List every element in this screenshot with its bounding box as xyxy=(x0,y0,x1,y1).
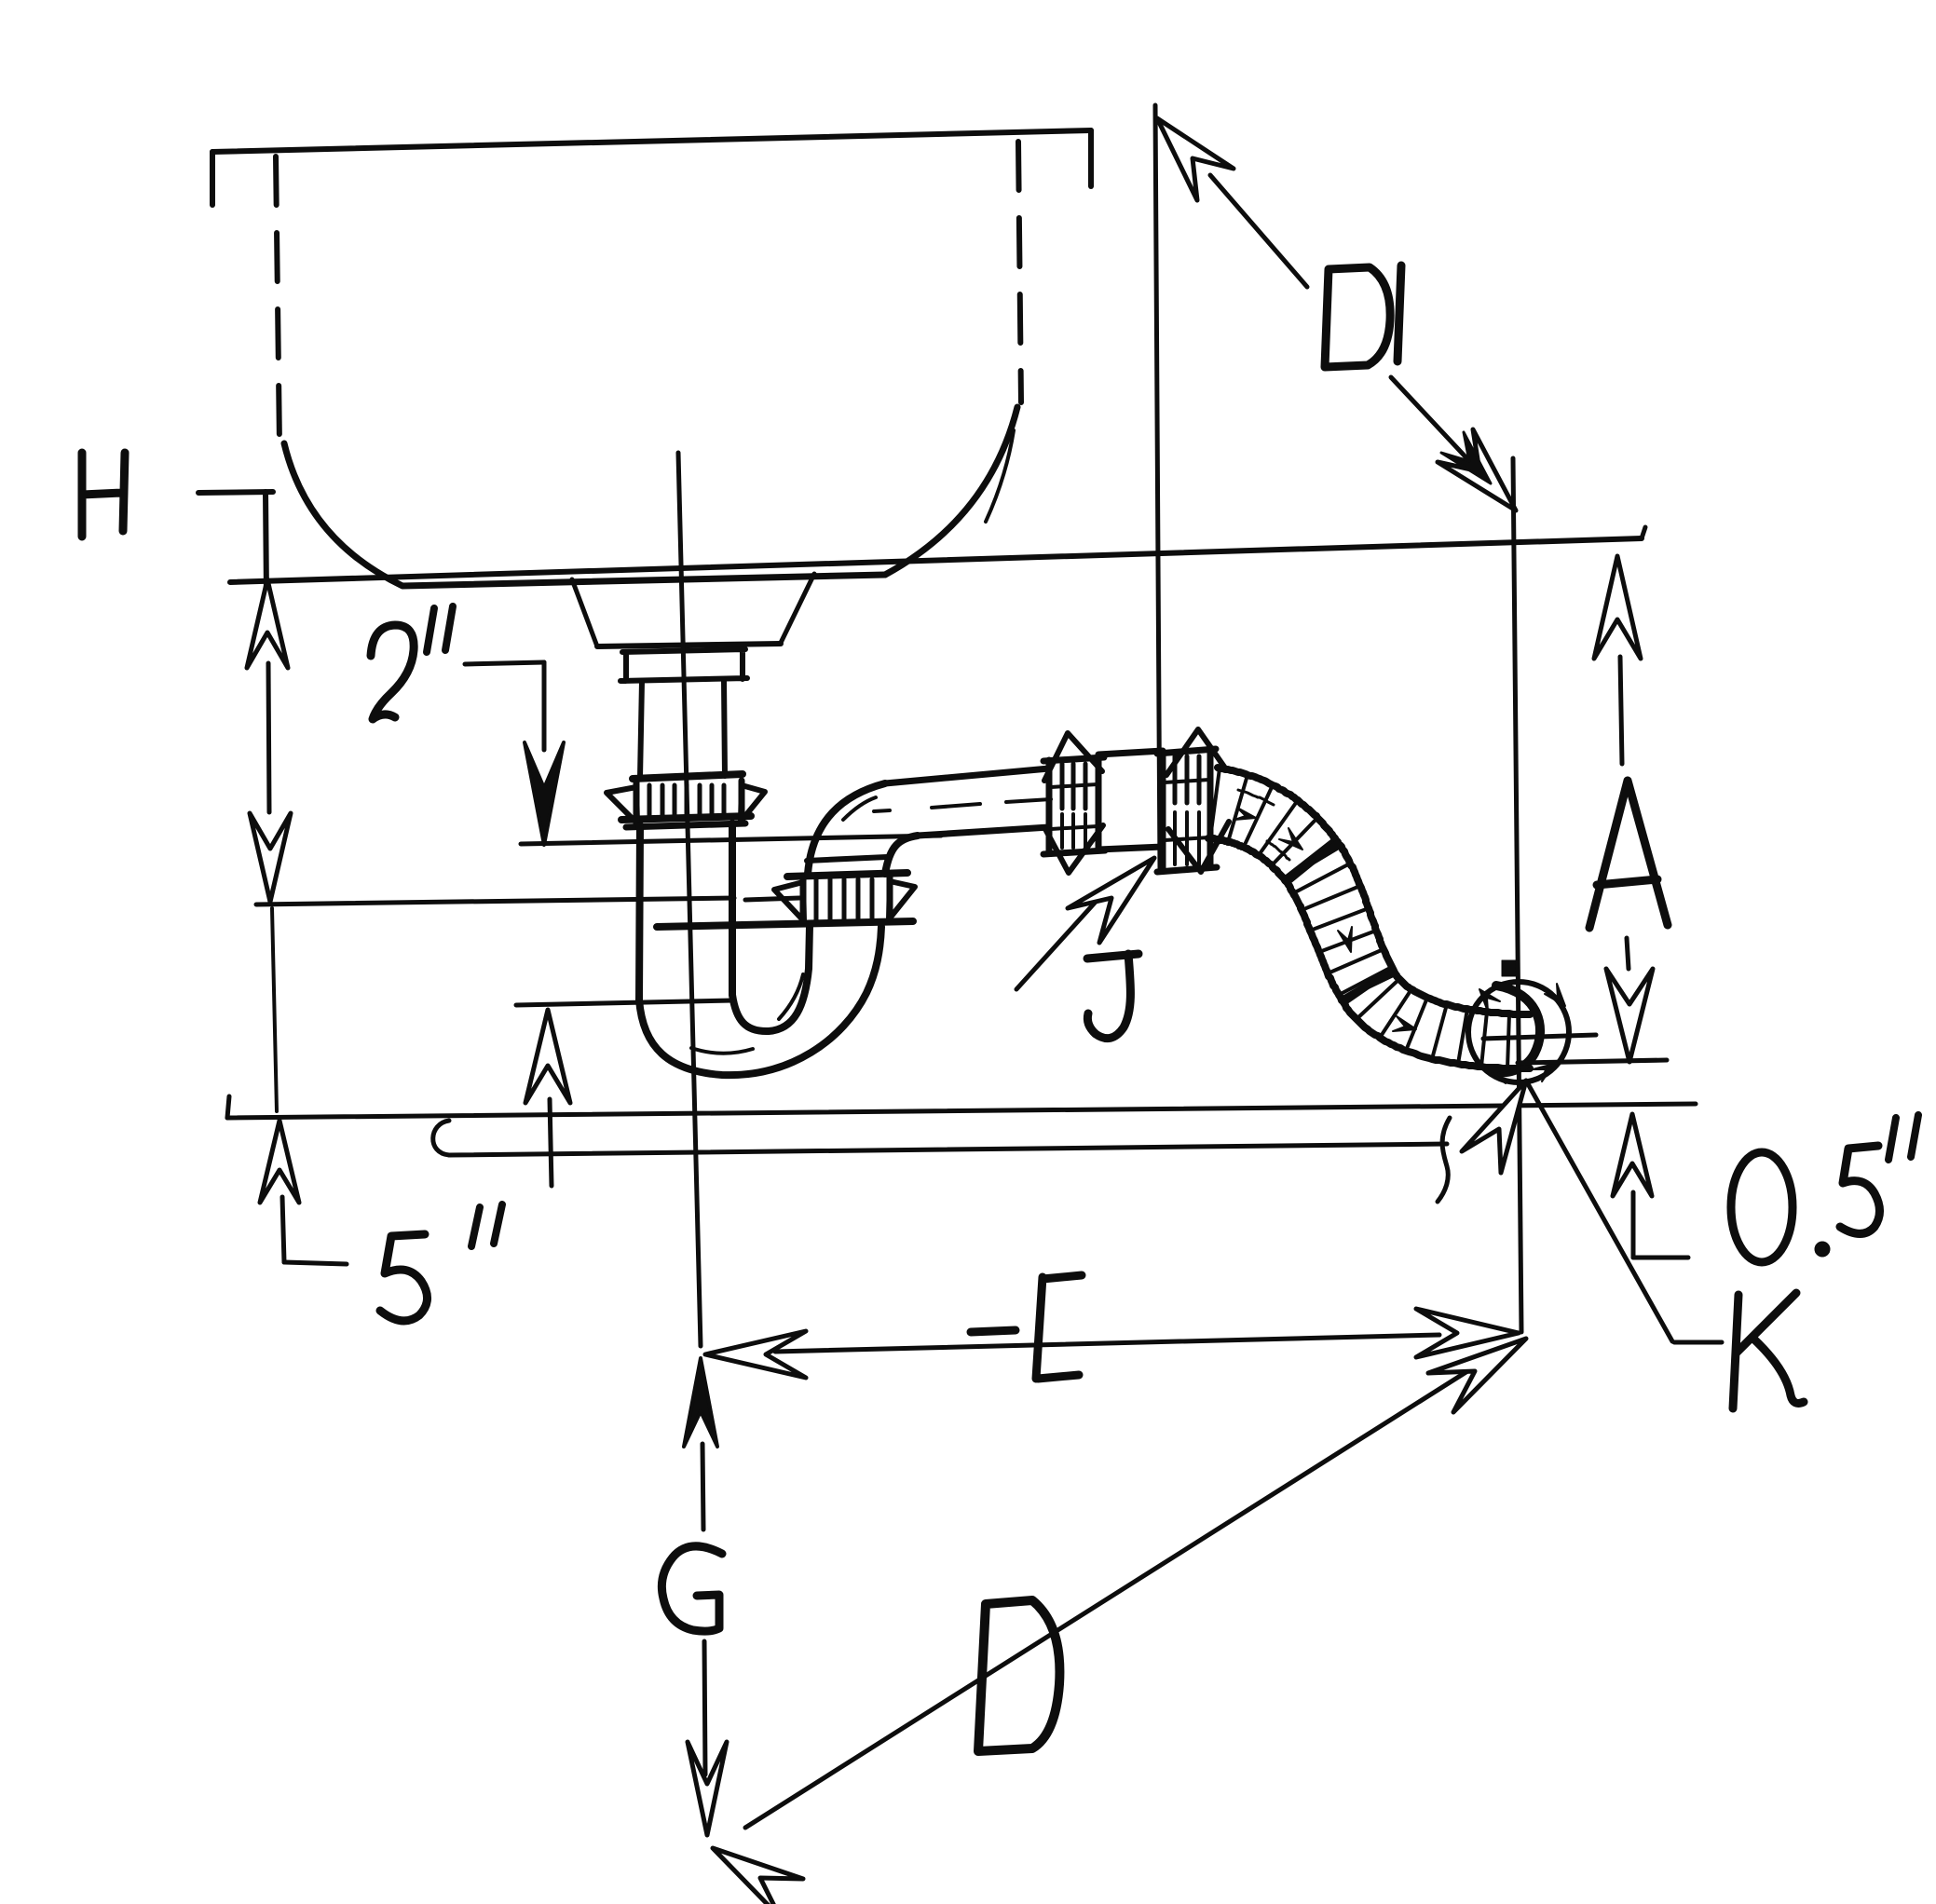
reference line at wall fitting xyxy=(1513,458,1521,1332)
label J xyxy=(1087,954,1138,1039)
label 5 inch xyxy=(380,1234,428,1321)
G arrow up xyxy=(684,1358,717,1447)
union J arrow xyxy=(1068,858,1154,943)
fitting tick line upper xyxy=(1483,1035,1596,1039)
trap arm level line xyxy=(256,898,734,904)
sink centerline xyxy=(678,453,701,1346)
union coupling J xyxy=(1043,757,1104,761)
strainer flange xyxy=(620,649,747,681)
2 inch arrow up xyxy=(525,1010,570,1103)
P-trap U-bend xyxy=(639,927,881,1075)
D1 leader upper xyxy=(1210,175,1307,287)
trap inlet level line xyxy=(521,836,941,844)
U-bend shading strokes xyxy=(691,1048,753,1054)
slip nut on trap outlet xyxy=(787,873,907,877)
slip nut on tailpiece xyxy=(633,774,743,779)
trap inlet tube xyxy=(639,825,640,1000)
label G xyxy=(661,1546,722,1631)
D1 leader lower xyxy=(1391,377,1514,509)
H dimension arrows xyxy=(247,579,288,668)
union J leader xyxy=(1016,881,1114,989)
2 inch arrow down xyxy=(525,742,564,845)
label D1 xyxy=(1325,267,1390,367)
sink rim (counter top edge) xyxy=(212,130,1091,152)
H bracket xyxy=(198,492,273,493)
label E xyxy=(971,1275,1082,1379)
sink right wall (hidden line) xyxy=(1018,142,1021,402)
drain stub pipe xyxy=(449,1144,1447,1155)
D1 arrow lower xyxy=(1438,429,1516,510)
floor line xyxy=(227,1104,1696,1118)
E line xyxy=(775,1335,1439,1352)
A arrow down xyxy=(1627,938,1629,969)
hose flow arrows xyxy=(1279,828,1302,850)
A arrow up xyxy=(1594,556,1641,659)
label A xyxy=(1589,781,1668,928)
sink bowl outline xyxy=(284,443,885,586)
D arrow upper xyxy=(1428,1339,1526,1412)
label D xyxy=(978,1600,1059,1751)
label H xyxy=(82,453,125,537)
G arrow down xyxy=(704,1641,705,1775)
5 inch arrow xyxy=(260,1121,299,1203)
2 inch leader xyxy=(465,662,544,664)
E arrow left xyxy=(705,1331,806,1378)
E arrow right xyxy=(1416,1309,1519,1357)
fitting tick line lower xyxy=(1518,1060,1667,1063)
label K xyxy=(1733,1293,1804,1408)
label 0.5 inch xyxy=(1731,1152,1793,1262)
drain tailpiece xyxy=(640,681,642,778)
H-5 extension line xyxy=(272,908,277,1111)
trap arm (horizontal pipe) xyxy=(885,768,1049,783)
K arrow xyxy=(1462,1081,1526,1173)
sink left wall (hidden line) xyxy=(276,156,279,445)
reference line left of hose xyxy=(1155,105,1160,868)
trap arm centerline xyxy=(932,804,980,808)
label 2 inch xyxy=(371,625,414,719)
countertop underside line xyxy=(230,538,1642,582)
D line xyxy=(745,1351,1500,1828)
wall outlet fitting (circle) xyxy=(1468,982,1569,1082)
flexible corrugated hose xyxy=(1218,768,1530,1014)
K leader xyxy=(1526,1081,1672,1341)
D1 arrow upper xyxy=(1157,118,1234,200)
0.5 inch arrow xyxy=(1613,1114,1652,1196)
sink strainer body xyxy=(572,579,597,646)
D arrow lower xyxy=(713,1848,803,1904)
trap outlet elbow xyxy=(808,783,885,874)
trap bottom reference line xyxy=(516,1000,732,1005)
